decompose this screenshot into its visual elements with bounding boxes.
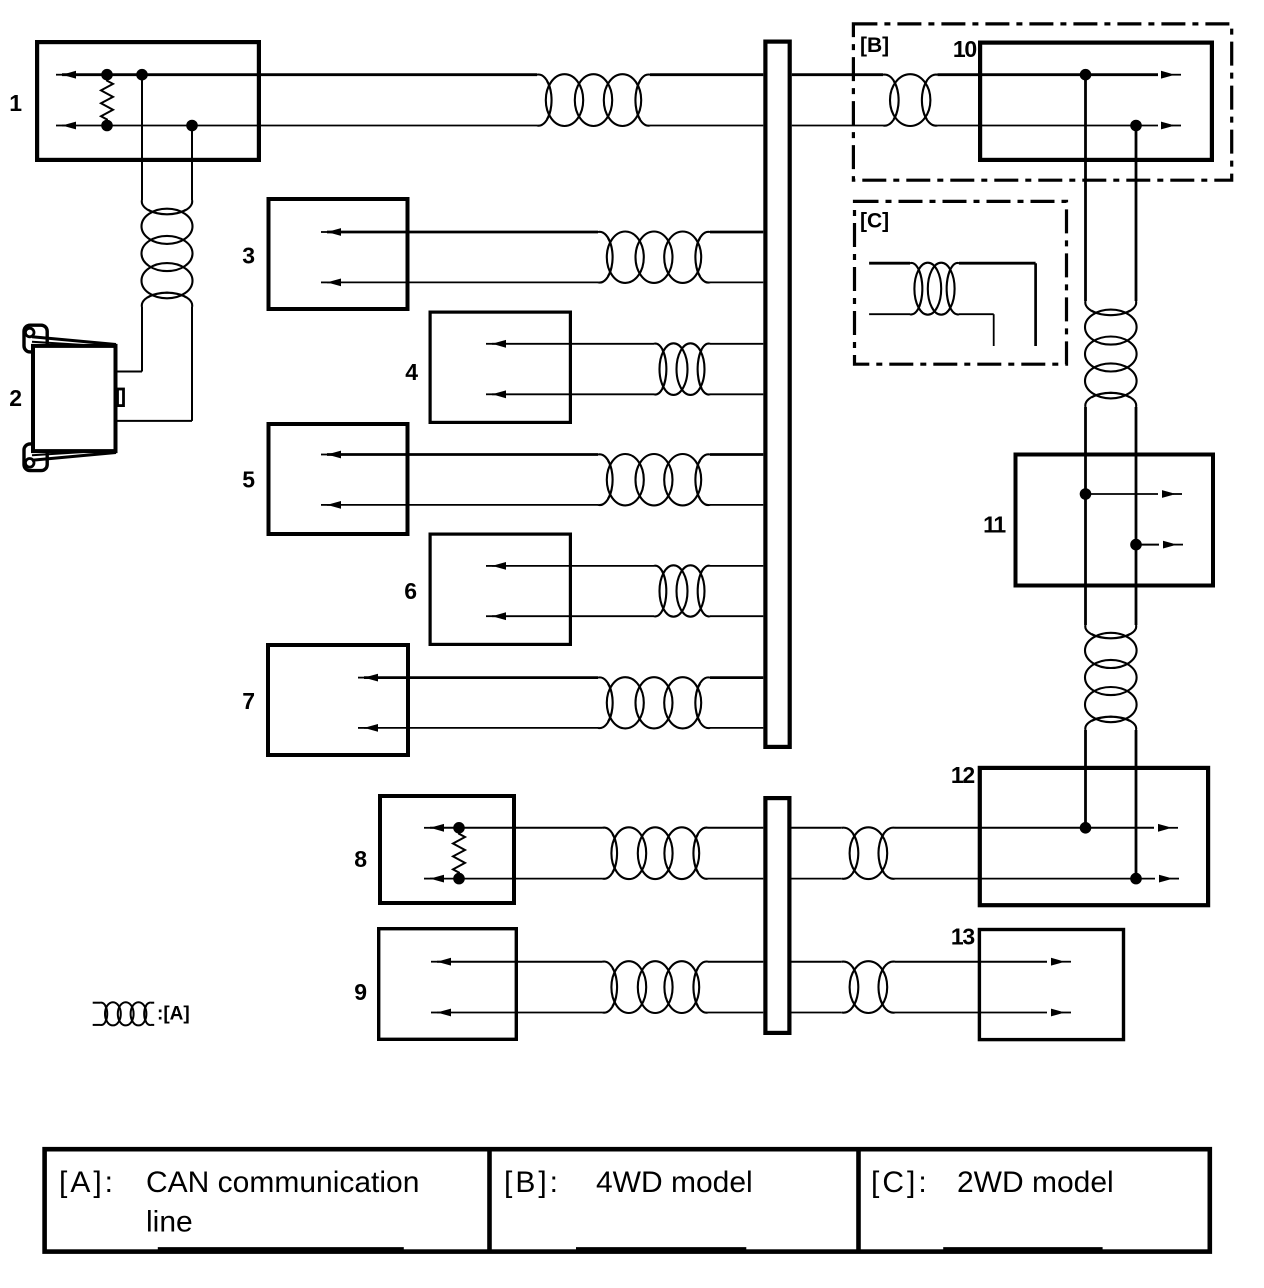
- twisted pair symbol row1 left: [537, 75, 650, 126]
- junction dot box1 b: [136, 69, 148, 81]
- svg-text:10: 10: [953, 36, 977, 62]
- wire row9 bottom left: [437, 1012, 603, 1014]
- wire to connector 2 lower: [191, 307, 193, 421]
- arrow into box6 bottom: [486, 615, 495, 617]
- wire row8 top left: [430, 827, 603, 829]
- box 4: [430, 312, 570, 422]
- junction connector bus bar 2: [765, 798, 789, 1033]
- wire CAN-H bus bar 1 to twisted pair: [792, 73, 883, 76]
- terminating resistor in box 8: [453, 828, 465, 879]
- wire row5 top: [327, 453, 598, 456]
- wire to connector 2 upper: [141, 307, 143, 372]
- connector 2 mounting tab top: [24, 325, 47, 352]
- svg-text:1: 1: [9, 90, 22, 116]
- twisted pair symbol vertical box11-box12: [1085, 625, 1136, 730]
- legend table divider 2: [856, 1149, 861, 1251]
- arrow into box7 bottom: [358, 727, 367, 729]
- legend table frame: [45, 1149, 1210, 1251]
- arrow in box10 bottom: [1172, 125, 1181, 127]
- svg-text:12: 12: [951, 762, 975, 788]
- svg-text:CAN communication: CAN communication: [146, 1166, 419, 1199]
- arrow into box5 bottom: [321, 504, 330, 506]
- twisted pair symbol row5: [598, 454, 710, 505]
- twisted pair symbol row8 left: [603, 828, 709, 879]
- wire CAN-H box1 to twisted pair: [62, 73, 537, 76]
- arrow into box3 bottom: [321, 281, 330, 283]
- svg-text:[A]:: [A]:: [59, 1166, 116, 1199]
- arrow into box8 bottom: [424, 878, 433, 880]
- wire box1 down left: [141, 75, 143, 200]
- twisted pair symbol vertical box10-box11: [1085, 301, 1136, 407]
- wire row3 bottom: [327, 281, 598, 283]
- wire stub connector 2 upper: [118, 371, 143, 373]
- arrow into box4 top: [486, 343, 495, 345]
- svg-text:11: 11: [983, 512, 1006, 538]
- junction dot box10 top: [1080, 69, 1092, 81]
- junction dot box12 top: [1080, 822, 1092, 834]
- arrow into box7 top: [358, 677, 367, 679]
- wire row9 top left: [437, 961, 603, 963]
- wire row7 bottom: [364, 727, 598, 729]
- wire row9 top right: [792, 961, 842, 963]
- svg-text:[B]: [B]: [860, 34, 889, 57]
- wire CAN-L box1 to twisted pair: [62, 125, 537, 127]
- wire CAN-L into box 10: [938, 125, 1159, 127]
- arrow in box12 top: [1169, 827, 1178, 829]
- arrow in box11 bottom: [1174, 544, 1183, 546]
- wire box1 down right: [191, 126, 193, 201]
- wire box10 down right: [1135, 126, 1138, 302]
- box 10 (4WD controller): [980, 43, 1212, 160]
- twisted pair symbol row3: [598, 232, 710, 283]
- wire into box11 left: [1084, 407, 1087, 625]
- box 7: [268, 645, 408, 755]
- wire [C] top drop: [1034, 263, 1037, 346]
- box 11: [1016, 455, 1214, 586]
- arrow in box10 top: [1172, 74, 1181, 76]
- twisted pair symbol in [C]: [910, 263, 959, 314]
- box 1 (ECM with terminating resistor): [37, 42, 259, 160]
- wire box10 down left: [1084, 75, 1087, 301]
- connector 2 right tab: [118, 389, 124, 406]
- svg-text:2: 2: [9, 385, 22, 411]
- arrow in box13 bottom: [1062, 1012, 1071, 1014]
- svg-text:8: 8: [354, 846, 367, 872]
- wire row5 bottom: [327, 504, 598, 506]
- svg-text:[C]: [C]: [860, 210, 889, 233]
- svg-text:[C]:: [C]:: [871, 1166, 930, 1199]
- arrow into box5 top: [321, 454, 330, 456]
- wire row8 bottom right: [792, 878, 842, 880]
- twisted pair symbol row9 left: [603, 962, 709, 1013]
- legend table divider 1: [487, 1149, 492, 1251]
- junction connector bus bar 1: [765, 42, 789, 747]
- junction dot box11 left: [1080, 488, 1092, 500]
- box 9: [379, 929, 517, 1040]
- wire CAN-H into box 10: [938, 73, 1159, 76]
- box 8 (module with terminating resistor): [380, 796, 514, 903]
- arrow into box3 top: [321, 231, 330, 233]
- twisted pair symbol vertical box1-connector2: [142, 200, 192, 307]
- svg-text:4: 4: [405, 359, 418, 385]
- arrow in box11 top: [1173, 493, 1182, 495]
- terminating resistor in box 1: [101, 75, 113, 126]
- wire CAN-L bus bar 1 to twisted pair: [792, 125, 883, 127]
- junction dot box11 right: [1130, 539, 1142, 551]
- svg-text:4WD model: 4WD model: [596, 1166, 753, 1199]
- box 13: [979, 930, 1123, 1040]
- box 3: [269, 199, 408, 309]
- junction dot box1 d: [186, 120, 198, 132]
- twisted pair symbol row9 right: [842, 962, 895, 1013]
- connector 2 flange top diagonal: [32, 337, 116, 345]
- legend underline marks: [158, 1247, 404, 1251]
- arrow in box12 bottom: [1170, 878, 1179, 880]
- box 6: [430, 534, 570, 644]
- box 12: [980, 768, 1208, 905]
- arrow into box1 top: [56, 74, 65, 76]
- wire row6 bottom: [492, 615, 654, 617]
- svg-text:6: 6: [404, 578, 417, 604]
- connector 2 flange bottom diagonal: [32, 453, 116, 461]
- svg-text:5: 5: [242, 467, 255, 493]
- arrow into box9 bottom: [431, 1012, 440, 1014]
- wire row7 top: [364, 676, 598, 679]
- twisted pair symbol row1 right: [883, 75, 938, 126]
- wire into box12 right: [1135, 730, 1138, 879]
- svg-text:13: 13: [951, 924, 975, 950]
- junction dot box12 bottom: [1130, 873, 1142, 885]
- wire CAN-L to bus bar 1: [650, 125, 763, 127]
- svg-text:2WD model: 2WD model: [957, 1166, 1114, 1199]
- wire [C] bottom drop: [993, 314, 995, 346]
- twisted pair symbol row4: [654, 344, 710, 395]
- arrow in box13 top: [1062, 961, 1071, 963]
- wire row4 bottom: [492, 393, 654, 395]
- twisted pair legend icon [A]: [93, 1002, 101, 1004]
- junction dot box10 bottom: [1130, 120, 1142, 132]
- wire into box11 right: [1135, 407, 1138, 625]
- dash-dot frame [C] 2WD option: [855, 201, 1067, 364]
- twisted pair symbol row7: [598, 677, 710, 728]
- wire CAN-H to bus bar 1: [650, 73, 763, 76]
- wire row4 top: [492, 343, 654, 345]
- wire row3 top: [327, 231, 598, 234]
- arrow into box4 bottom: [486, 393, 495, 395]
- box 5: [269, 424, 408, 534]
- wire row8 bottom left: [430, 878, 603, 880]
- dash-dot frame [B] 4WD option: [853, 24, 1231, 180]
- svg-text:9: 9: [354, 979, 367, 1005]
- arrow wire box11 bottom: [1136, 544, 1159, 546]
- junction dot box1 a: [101, 69, 113, 81]
- wire row8 top right: [792, 827, 842, 829]
- arrow into box6 top: [486, 565, 495, 567]
- junction dot box8 bottom: [453, 873, 465, 885]
- junction dot box8 top: [453, 822, 465, 834]
- arrow into box8 top: [424, 827, 433, 829]
- svg-text:[B]:: [B]:: [504, 1166, 561, 1199]
- arrow into box1 bottom: [56, 125, 65, 127]
- connector 2 mounting tab bottom: [24, 444, 47, 471]
- svg-text:7: 7: [242, 688, 255, 714]
- arrow wire box11 top: [1086, 493, 1159, 495]
- twisted pair symbol row8 right: [842, 828, 895, 879]
- svg-text:line: line: [146, 1206, 193, 1239]
- wire [C] top: [869, 262, 910, 265]
- wire into box12 left: [1084, 730, 1087, 828]
- connector 2 body: [33, 346, 116, 451]
- wire stub connector 2 lower: [118, 420, 193, 422]
- wire row6 top: [492, 565, 654, 567]
- svg-text:3: 3: [242, 243, 255, 269]
- svg-text::[A]: :[A]: [157, 1004, 190, 1025]
- wire [C] bottom: [869, 313, 910, 315]
- twisted pair symbol row6: [654, 566, 710, 617]
- arrow into box9 top: [431, 961, 440, 963]
- junction dot box1 c: [101, 120, 113, 132]
- wire row9 bottom right: [792, 1012, 842, 1014]
